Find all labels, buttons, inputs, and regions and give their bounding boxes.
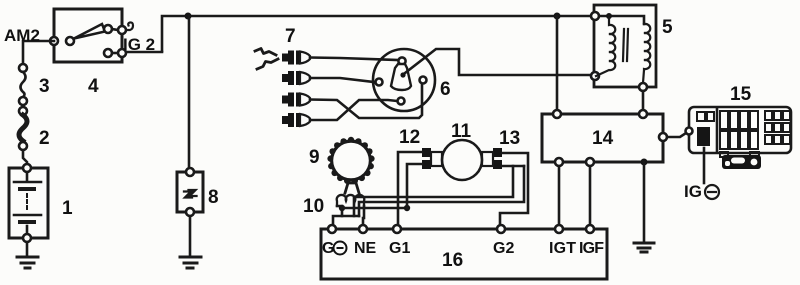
ECU 16 box [321,229,607,279]
ECU terminal IGT [555,225,563,233]
resistor 8 zigzag symbol [184,190,197,198]
spark plug 7 no.4 [282,113,310,127]
wire igniter IGF [589,166,592,229]
igniter terminal +B [553,110,561,118]
spark gap marks [255,49,276,56]
coil 5 terminal +B [591,12,599,20]
node dot pickup12 return [404,205,410,211]
igniter terminal C [639,110,647,118]
wire pickup12 lower return [407,164,422,208]
svg-text:13: 13 [499,128,520,149]
wire lower contact link [112,52,118,55]
signal rotor gear 9 [327,137,374,184]
resistor 8 top terminal [186,168,194,176]
pickup coil 10 winding [337,195,365,206]
wire 13 return long [354,166,513,216]
ignition coil 5 box [594,5,656,87]
coil 5 terminal C [639,83,647,91]
pickup coil 12 [422,148,431,157]
coil core [623,29,628,61]
svg-text:6: 6 [440,79,451,100]
svg-text:5: 5 [662,17,673,38]
wire plug2 to left post [310,78,374,82]
igniter terminal IGT [555,158,563,166]
node coil primary tap [606,13,612,19]
wire pickup13 lower return [502,165,524,168]
svg-text:IG: IG [684,182,702,201]
pickup coil 10 core [345,183,359,193]
switch IG2 terminal lower [118,49,126,57]
svg-text:16: 16 [442,250,463,271]
svg-text:11: 11 [451,121,472,142]
svg-text:IGF: IGF [579,240,604,257]
svg-text:8: 8 [208,187,219,208]
switch blade [74,24,105,39]
node igniter ground tap [641,159,648,166]
wire IG2 to top bus [126,51,162,54]
battery 1 [9,168,48,238]
wire bus to resistor [188,16,191,172]
wire coil10 right to ECU NE [363,206,364,229]
coil top internal wire [599,16,644,24]
node junction at igniter drop [554,13,561,20]
check connector 15 [686,107,792,169]
battery positive terminal [23,164,31,172]
battery negative terminal [23,234,31,242]
wire igniter IGT [558,166,561,229]
svg-text:14: 14 [592,128,614,149]
igniter 14 box [542,114,663,162]
svg-text:10: 10 [303,196,324,217]
switch upper contact [104,25,112,33]
wire contact to edge [112,29,118,30]
svg-text:G1: G1 [389,240,410,257]
node dot G- riser [339,205,345,211]
ignition switch box 4 [54,9,122,62]
HT lead rotor to coil [405,49,591,75]
ground igniter [643,162,646,242]
wire plug4 crossing to bottom post [310,100,397,120]
wire coil10 left to ECU G- [333,206,342,229]
resistor 8 bottom terminal [186,208,194,216]
svg-text:1: 1 [62,198,73,219]
svg-text:NE: NE [354,240,377,257]
distributor left post [376,79,383,86]
svg-text:IGT: IGT [549,240,576,257]
wire pickup13 upper to G2 [500,153,528,229]
svg-text:15: 15 [730,84,752,105]
wire bus to igniter [556,16,559,110]
ECU terminal G- [328,225,336,233]
svg-text:12: 12 [399,127,420,148]
ECU terminal G1 [393,225,401,233]
signal rotor 11 [442,140,482,180]
fusible link 3 [19,64,27,72]
ECU terminal G2 [497,225,505,233]
spark plug 7 no.3 [282,93,310,107]
wire IG pin leader [703,148,706,183]
pickup coil 13 [493,148,502,157]
ground battery [26,242,29,256]
wire 12 return [342,207,407,210]
ECU terminal NE [359,225,367,233]
resistor 8 [177,172,203,212]
wire fuse to battery [23,150,27,164]
svg-text:4: 4 [88,76,99,97]
distributor right post [420,77,427,84]
distributor bottom post [398,98,405,105]
wire coil to igniter [642,91,645,110]
spark plug 7 no.1 [282,51,310,65]
node junction at resistor tap [185,13,192,20]
svg-text:IG 2: IG 2 [123,35,155,54]
svg-text:AM2: AM2 [4,26,40,45]
wire IG2 pigtail curl [126,22,133,30]
rotor [398,57,405,64]
coil secondary winding [643,24,650,83]
wire ground bus segment [342,215,359,218]
wire top bus [162,16,591,51]
coil 5 HT terminal [591,72,599,80]
switch lower contact [104,49,112,57]
fuse 2 [19,107,27,115]
ground resistor [189,216,192,256]
svg-text:3: 3 [39,76,50,97]
svg-text:7: 7 [285,26,296,47]
igniter terminal to check connector [659,133,667,141]
svg-text:9: 9 [309,147,320,168]
IG minus symbol [705,185,719,199]
wire 13 return second [359,166,524,216]
spark plug 7 no.2 [282,71,310,85]
coil primary winding [596,16,615,76]
wire plug1 to rotor cap [310,58,398,61]
ECU terminal IGF [586,225,594,233]
distributor 6 [373,49,435,111]
wire igniter to connector 15 [667,133,686,137]
switch pivot contact [66,37,74,45]
wire plug3 crossing to right post [310,83,422,118]
svg-text:2: 2 [39,128,50,149]
switch left terminal [50,37,58,45]
switch IG2 terminal upper [118,26,126,34]
wire pickup12 upper to G1 [398,152,422,229]
wire AM2 to switch [23,41,54,64]
svg-text:G2: G2 [493,240,514,257]
igniter terminal IGF [586,158,594,166]
